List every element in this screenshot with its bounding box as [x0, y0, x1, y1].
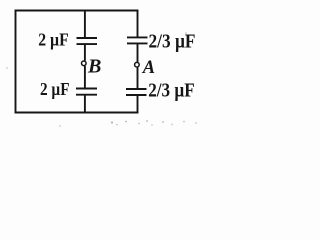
node B terminal circle: [82, 61, 87, 66]
svg-text:A: A: [142, 58, 155, 78]
svg-text:2 µF: 2 µF: [40, 79, 70, 99]
svg-text:2/3 µF: 2/3 µF: [148, 81, 195, 102]
node A terminal circle: [135, 62, 140, 67]
capacitor C1 2uF bottom plate: [77, 43, 98, 45]
wire: middle branch upper lead: [84, 11, 86, 39]
capacitor C3 2/3uF bottom plate: [127, 42, 148, 44]
wire: middle branch between C1 and node B: [84, 44, 86, 61]
wire: right branch lower lead: [137, 95, 139, 113]
capacitor C4 2/3uF top plate: [126, 88, 147, 90]
capacitor C1 2uF top plate: [77, 37, 98, 39]
capacitor C4 2/3uF bottom plate: [126, 94, 147, 96]
wire: middle branch lower lead: [84, 95, 86, 113]
svg-text:2/3 µF: 2/3 µF: [149, 32, 196, 53]
capacitor C2 2uF bottom plate: [76, 94, 97, 96]
wire: middle branch between node B and C2: [84, 66, 86, 89]
wire: bottom bus: [15, 112, 139, 114]
wire: right branch upper lead: [137, 10, 139, 38]
wire: left side of loop: [15, 10, 17, 114]
wire: top bus: [15, 10, 139, 12]
wire: right branch between node A and C4: [137, 67, 139, 89]
capacitor C3 2/3uF top plate: [127, 36, 148, 38]
wire: right branch between C3 and node A: [137, 43, 139, 62]
svg-text:2 µF: 2 µF: [38, 30, 68, 50]
capacitor C2 2uF top plate: [76, 88, 97, 90]
svg-text:B: B: [87, 55, 101, 77]
